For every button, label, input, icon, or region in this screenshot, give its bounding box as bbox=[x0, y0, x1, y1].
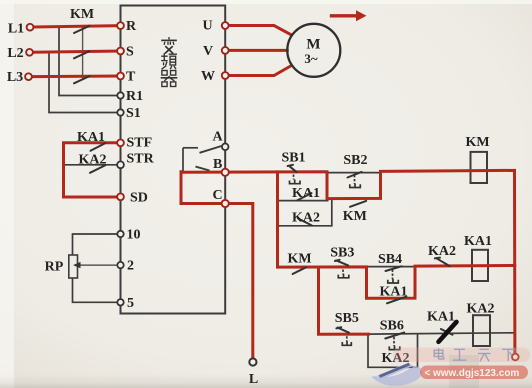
svg-text:KM: KM bbox=[465, 135, 489, 150]
svg-text:RP: RP bbox=[45, 260, 64, 275]
svg-text:3~: 3~ bbox=[304, 51, 318, 66]
svg-text:SB3: SB3 bbox=[330, 246, 354, 261]
svg-text:STF: STF bbox=[127, 136, 153, 151]
svg-text:KM: KM bbox=[70, 7, 94, 22]
svg-text:KM: KM bbox=[288, 252, 312, 267]
svg-text:SD: SD bbox=[130, 191, 148, 206]
svg-text:KA1: KA1 bbox=[77, 130, 105, 145]
svg-text:R: R bbox=[126, 19, 137, 34]
svg-text:KA2: KA2 bbox=[467, 302, 495, 317]
svg-text:5: 5 bbox=[127, 296, 134, 311]
svg-text:2: 2 bbox=[127, 259, 134, 274]
svg-text:KA2: KA2 bbox=[79, 153, 107, 168]
svg-text:KA1: KA1 bbox=[464, 234, 492, 249]
svg-text:KA1: KA1 bbox=[380, 285, 408, 300]
svg-text:A: A bbox=[213, 130, 224, 145]
svg-text:S: S bbox=[126, 45, 134, 60]
svg-text:L1: L1 bbox=[8, 22, 24, 37]
svg-text:KA1: KA1 bbox=[427, 310, 455, 325]
svg-text:B: B bbox=[213, 157, 222, 172]
svg-text:KA2: KA2 bbox=[292, 211, 320, 226]
svg-text:SB1: SB1 bbox=[281, 150, 305, 165]
svg-text:KA2: KA2 bbox=[428, 244, 456, 259]
svg-text:C: C bbox=[213, 188, 223, 203]
svg-text:W: W bbox=[201, 69, 215, 84]
svg-text:SB6: SB6 bbox=[380, 319, 404, 334]
svg-text:L3: L3 bbox=[7, 70, 23, 85]
svg-text:KM: KM bbox=[343, 209, 367, 224]
svg-text:T: T bbox=[126, 70, 136, 85]
svg-text:L2: L2 bbox=[7, 46, 23, 61]
svg-text:S1: S1 bbox=[126, 106, 141, 121]
svg-text:<: < bbox=[425, 368, 431, 379]
svg-text:L: L bbox=[249, 372, 258, 387]
svg-text:SB4: SB4 bbox=[378, 252, 402, 267]
svg-text:www.dgjs123.com: www.dgjs123.com bbox=[432, 368, 519, 379]
svg-text:10: 10 bbox=[127, 228, 141, 243]
svg-text:STR: STR bbox=[127, 152, 155, 167]
svg-text:R1: R1 bbox=[126, 89, 143, 104]
svg-text:KA1: KA1 bbox=[292, 186, 320, 201]
svg-text:SB2: SB2 bbox=[343, 153, 367, 168]
svg-text:V: V bbox=[203, 44, 213, 59]
svg-text:SB5: SB5 bbox=[335, 311, 359, 326]
svg-text:U: U bbox=[203, 19, 213, 34]
